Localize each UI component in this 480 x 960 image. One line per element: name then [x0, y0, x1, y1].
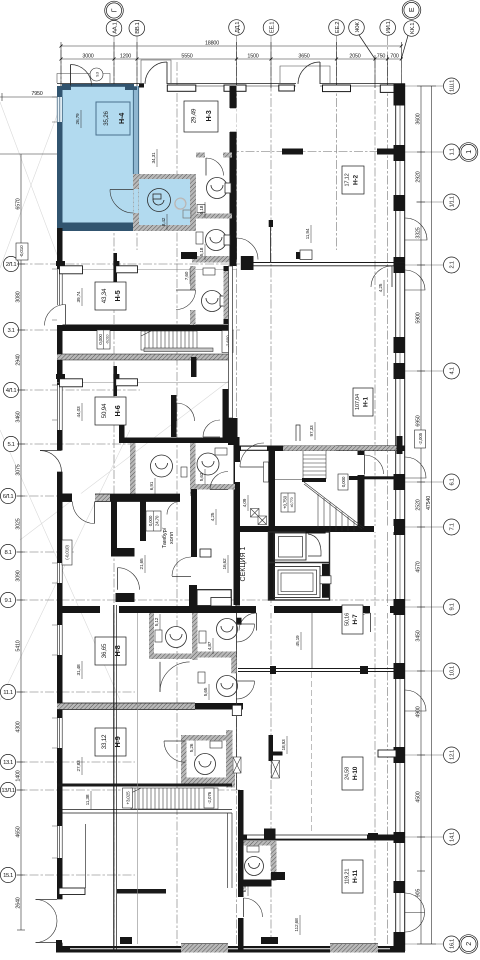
tambur corridor walls: [111, 501, 117, 548]
wall H-5/stair boundary: [57, 325, 232, 332]
svg-text:119,21: 119,21: [345, 869, 351, 885]
wall H-10/H-11 divider: [238, 835, 405, 841]
svg-text:2050: 2050: [349, 54, 360, 60]
thick wall below tambur baths: [57, 494, 180, 502]
H-3 / bath column walls: [196, 86, 237, 266]
svg-text:EE.1: EE.1: [269, 22, 275, 33]
wall 2.1 axis right part: light partition: [253, 262, 405, 264]
svg-text:BB.1: BB.1: [135, 22, 141, 33]
svg-text:2: 2: [466, 942, 473, 946]
thin partition H-7: [311, 613, 313, 668]
svg-text:1500: 1500: [247, 54, 258, 60]
svg-text:AA.1: AA.1: [112, 22, 118, 33]
svg-text:18,93: 18,93: [281, 739, 287, 751]
elevation box -2,600: [222, 331, 233, 353]
room label H-10: [342, 757, 363, 790]
svg-text:Н-6: Н-6: [113, 405, 122, 416]
washing fixture in blue bathroom: [148, 189, 192, 219]
svg-text:39,74: 39,74: [76, 291, 82, 303]
elevation boxes 0,000 stair1: [97, 330, 110, 349]
toilet H-5 bath: [202, 268, 227, 312]
svg-text:2920: 2920: [416, 171, 422, 182]
svg-text:700: 700: [390, 54, 399, 60]
entrance door left wall with arc: [57, 450, 63, 472]
wall stub EE.1: [270, 227, 272, 263]
svg-text:47540: 47540: [426, 496, 432, 510]
stair 1 treads: [141, 331, 213, 352]
svg-text:50,94: 50,94: [101, 403, 108, 418]
svg-text:Н-1: Н-1: [363, 396, 370, 406]
svg-text:Н-11: Н-11: [352, 869, 359, 883]
svg-text:8.1: 8.1: [5, 550, 12, 556]
horizontal grid axes left (dash-dot): [14, 152, 412, 876]
svg-text:3080: 3080: [16, 291, 22, 302]
room label H-2: [342, 166, 364, 194]
tambur row: top wall of bath block: [119, 438, 238, 444]
svg-text:7.1: 7.1: [450, 523, 456, 530]
svg-text:-0,010: -0,010: [19, 245, 24, 257]
H-5/H-6 boundary: open with stub partitions: [57, 382, 230, 384]
room label H-8: [95, 637, 126, 665]
vertical grid axes (dash-dot): [61, 36, 401, 952]
svg-text:Н-7: Н-7: [352, 614, 359, 624]
top wall band with windows: [57, 84, 405, 93]
svg-text:4900: 4900: [416, 706, 422, 717]
right exterior wall: [394, 84, 406, 952]
svg-text:3000: 3000: [82, 54, 93, 60]
svg-text:6950: 6950: [416, 415, 422, 426]
svg-text:3025: 3025: [16, 518, 22, 529]
svg-text:5550: 5550: [181, 54, 192, 60]
H-1 interior fitting lines: [296, 250, 312, 441]
room label H-3: [184, 101, 218, 132]
svg-text:1Ш.1: 1Ш.1: [450, 80, 456, 92]
svg-text:3460: 3460: [16, 411, 22, 422]
svg-text:ДД.1: ДД.1: [235, 22, 241, 33]
mid-room wall stubs bottom left: [59, 888, 85, 895]
svg-text:СЕКЦИЯ 1: СЕКЦИЯ 1: [240, 546, 247, 581]
top dimension line total 18800: [61, 42, 401, 88]
second bath row H-8 col: [198, 672, 238, 697]
thin line at BB axis lower: [137, 613, 139, 944]
svg-text:26,79: 26,79: [75, 113, 81, 125]
svg-text:4500: 4500: [416, 791, 422, 802]
svg-text:2.1: 2.1: [450, 261, 456, 268]
room H-4 blue fill: [57, 84, 190, 231]
svg-text:3450: 3450: [416, 630, 422, 641]
svg-text:36,65: 36,65: [101, 643, 108, 658]
toilet lower bath: [196, 230, 230, 251]
H-7 small hatched piers: [269, 735, 274, 761]
svg-text:12.1: 12.1: [450, 750, 456, 760]
svg-text:50,16: 50,16: [345, 613, 351, 626]
svg-text:3600: 3600: [416, 113, 422, 124]
tambur bath divider walls: [130, 443, 136, 501]
svg-text:EE.2: EE.2: [335, 22, 341, 33]
vertical wall x238 lower (H-11 part): [238, 790, 244, 951]
svg-text:750: 750: [377, 54, 386, 60]
svg-text:11.1: 11.1: [3, 690, 13, 696]
room label H-9: [95, 728, 126, 756]
tambur elevation box: [146, 511, 161, 531]
svg-text:+0,750: +0,750: [283, 495, 288, 509]
electric panels with X: [251, 509, 267, 525]
balcony door arcs right wall: [405, 218, 427, 932]
svg-text:5,12: 5,12: [154, 617, 160, 626]
svg-text:Н-2: Н-2: [353, 174, 360, 184]
light wall below stair3: [57, 809, 232, 811]
svg-text:Тамбур/: Тамбур/: [162, 527, 168, 548]
elevation boxes at stair3: [123, 788, 133, 808]
svg-text:4570: 4570: [416, 561, 422, 572]
room label H-1: [353, 388, 373, 416]
svg-text:1.1: 1.1: [450, 148, 456, 155]
svg-text:33,12: 33,12: [101, 734, 108, 749]
small shaft next to door: [264, 462, 269, 482]
svg-text:1/1.1: 1/1.1: [450, 196, 456, 207]
svg-text:5,65: 5,65: [203, 687, 209, 696]
svg-text:8,42: 8,42: [161, 217, 167, 226]
svg-text:44,03: 44,03: [76, 406, 82, 418]
svg-text:97,33: 97,33: [309, 425, 315, 437]
svg-text:6570: 6570: [16, 198, 22, 209]
svg-text:13Л.1: 13Л.1: [1, 788, 14, 794]
svg-text:6,53: 6,53: [242, 883, 248, 892]
small axis circle near entrance: [90, 68, 103, 81]
left axis bubbles: [0, 256, 18, 882]
svg-text:24,70: 24,70: [155, 515, 160, 526]
bathroom door arc H-4: [110, 190, 134, 214]
stair 3: [131, 788, 218, 809]
stair 2 flights: [275, 451, 364, 531]
right dimension chain: [417, 86, 436, 944]
H-8 bathroom block: [149, 613, 198, 660]
H-4/H-5 boundary: open with stub partitions: [57, 269, 237, 271]
svg-text:4,25: 4,25: [378, 283, 384, 292]
svg-text:1400: 1400: [16, 770, 22, 781]
svg-text:29,49: 29,49: [191, 108, 198, 123]
svg-text:Н-4: Н-4: [117, 113, 126, 124]
thin boundary line of H-7 col: [236, 613, 238, 790]
top axis bubbles: [105, 1, 421, 59]
svg-text:5,18: 5,18: [199, 205, 205, 214]
axis 1.1 wall stubs: [282, 149, 303, 155]
stairwell door gap right wall: [358, 455, 365, 475]
bath2 bottom wall (higher): [196, 484, 238, 490]
svg-text:5.1: 5.1: [8, 442, 15, 448]
door arc at left wall above stair row: [57, 305, 63, 325]
left dimension chain: [0, 93, 57, 930]
room label H-6: [95, 397, 126, 425]
svg-text:21,65: 21,65: [139, 558, 145, 570]
room label H-5: [95, 282, 126, 310]
H-5 bathroom walls: [176, 266, 196, 325]
hatched column right of H-5: [224, 266, 231, 324]
svg-text:-2,005: -2,005: [418, 432, 423, 444]
svg-text:9.1: 9.1: [450, 603, 456, 610]
svg-text:ИИ.1: ИИ.1: [386, 21, 392, 33]
electric panel with X bottom: [233, 757, 241, 773]
svg-text:11,38: 11,38: [85, 794, 91, 805]
lobby door arc: [240, 443, 264, 467]
svg-text:7950: 7950: [31, 91, 42, 97]
svg-text:112,68: 112,68: [294, 918, 300, 932]
toilet upper bath: [197, 178, 231, 213]
svg-text:17,12: 17,12: [345, 173, 351, 186]
stairwell walls: [237, 446, 367, 452]
svg-text:35,26: 35,26: [103, 110, 110, 125]
elevation box 0,000 stairwell: [338, 474, 348, 490]
room label H-7: [342, 605, 363, 634]
stairwell top wall right extension: [367, 446, 405, 452]
svg-text:43,34: 43,34: [101, 288, 108, 303]
right axis bubbles: [444, 78, 478, 953]
svg-text:5900: 5900: [416, 312, 422, 323]
svg-text:27,83: 27,83: [76, 760, 82, 772]
svg-text:15.1: 15.1: [3, 873, 13, 879]
svg-text:5,62: 5,62: [199, 472, 205, 481]
wall below H-9: [57, 784, 232, 787]
H-9 bathroom block: [181, 730, 235, 788]
window sill ticks left wall: [52, 97, 57, 858]
svg-text:4,09: 4,09: [242, 498, 248, 507]
hatch bar below bath column: [192, 256, 236, 263]
svg-text:5,26: 5,26: [189, 743, 195, 752]
svg-text:9.1: 9.1: [5, 598, 12, 604]
svg-text:34,31: 34,31: [151, 152, 157, 164]
column stubs near bottom wall: [261, 937, 278, 944]
H-1 left wall: [229, 266, 233, 418]
construction faint diagonals: [0, 102, 230, 700]
stair room lower hatched wall: [57, 354, 232, 360]
svg-text:-0,010: -0,010: [106, 335, 110, 345]
svg-text:7,60: 7,60: [184, 271, 190, 280]
svg-text:11,94: 11,94: [305, 228, 311, 239]
svg-text:0,000: 0,000: [148, 515, 153, 526]
small shaft box right corridor: [200, 549, 211, 557]
svg-text:6.1: 6.1: [450, 478, 456, 485]
room label H-11: [342, 860, 363, 893]
svg-text:-2,076: -2,076: [207, 791, 212, 803]
elevator shafts: [269, 528, 332, 600]
svg-text:Н-3: Н-3: [204, 110, 213, 121]
svg-text:14.1: 14.1: [450, 832, 456, 842]
svg-text:2520: 2520: [416, 499, 422, 510]
svg-text:0,000: 0,000: [98, 334, 103, 345]
svg-text:KK.1: KK.1: [410, 23, 416, 34]
svg-text:18800: 18800: [205, 41, 219, 47]
svg-text:4Л.1: 4Л.1: [6, 388, 17, 394]
svg-text:13.1: 13.1: [3, 760, 13, 766]
svg-text:5410: 5410: [16, 640, 22, 651]
svg-text:5,18: 5,18: [199, 247, 205, 256]
svg-text:16.1: 16.1: [450, 939, 456, 949]
svg-text:4,25: 4,25: [210, 512, 216, 521]
svg-text:4650: 4650: [16, 826, 22, 837]
section boundary double line: [113, 605, 115, 952]
svg-text:1: 1: [466, 150, 473, 154]
H-6 right walls and doors: [171, 389, 229, 438]
double door arcs at left wall bottom: [57, 898, 63, 900]
elevation box +0,750: [281, 493, 295, 512]
svg-text:16,62: 16,62: [222, 558, 228, 570]
svg-text:3.1: 3.1: [8, 328, 15, 334]
door leaf and arc top-middle: [298, 62, 320, 84]
svg-text:4,87: 4,87: [207, 641, 213, 650]
door leaf and arc top-left: [71, 65, 92, 86]
svg-text:905: 905: [416, 889, 422, 898]
svg-text:Н-5: Н-5: [113, 290, 122, 301]
svg-text:ЖЖ: ЖЖ: [355, 22, 361, 33]
tambur bath fixtures: [151, 448, 228, 477]
elevation box -0,010 left: [16, 243, 28, 260]
H-11 bathroom: [244, 841, 286, 887]
svg-text:6,91: 6,91: [149, 481, 155, 490]
svg-text:45,19: 45,19: [295, 635, 301, 647]
door arc corridor wall x229: [230, 238, 237, 259]
wall top of H-8/H-7 row: [57, 606, 405, 613]
svg-text:3325: 3325: [416, 227, 422, 238]
svg-text:3090: 3090: [16, 570, 22, 581]
svg-text:3075: 3075: [16, 464, 22, 475]
svg-text:3650: 3650: [298, 54, 309, 60]
elevation box -0,010 tambur left: [62, 540, 72, 565]
svg-text:(-0,010): (-0,010): [65, 545, 70, 560]
H-4 bathroom hatched walls: [133, 174, 196, 231]
svg-text:31,48: 31,48: [76, 664, 82, 676]
svg-text:холл: холл: [169, 532, 175, 544]
door arc H-3 entrance: [145, 62, 167, 84]
svg-text:+3,025: +3,025: [126, 791, 131, 805]
H-1 column stubs: [296, 252, 312, 259]
svg-text:1200: 1200: [120, 54, 131, 60]
svg-text:4.1: 4.1: [450, 367, 456, 374]
pier below stair wall: [191, 357, 197, 377]
bottom exterior wall: [56, 940, 405, 953]
left exterior wall: [57, 228, 63, 951]
svg-text:±0,770: ±0,770: [290, 497, 294, 507]
wall H-8/H-9 hatched: [57, 703, 195, 710]
svg-text:2940: 2940: [16, 354, 22, 365]
vestibule closets right of tambur: [197, 590, 231, 606]
small white circle fixture blue bath: [175, 198, 186, 209]
svg-text:4300: 4300: [16, 721, 22, 732]
svg-text:6Л.1: 6Л.1: [3, 494, 14, 500]
svg-text:24,58: 24,58: [345, 767, 351, 780]
entrance door top-left with canopy: [57, 60, 330, 83]
svg-text:E: E: [409, 7, 416, 12]
horizontal grid axes right (leader lines): [405, 86, 443, 944]
svg-text:2Л.1: 2Л.1: [6, 262, 17, 268]
room label H-4: [96, 102, 130, 135]
svg-text:107,04: 107,04: [355, 394, 361, 410]
wall top of H-10: [238, 668, 405, 670]
svg-text:0,000: 0,000: [341, 476, 346, 487]
svg-text:10.1: 10.1: [450, 666, 456, 676]
svg-text:Н-10: Н-10: [352, 766, 359, 780]
svg-text:2640: 2640: [16, 897, 22, 908]
